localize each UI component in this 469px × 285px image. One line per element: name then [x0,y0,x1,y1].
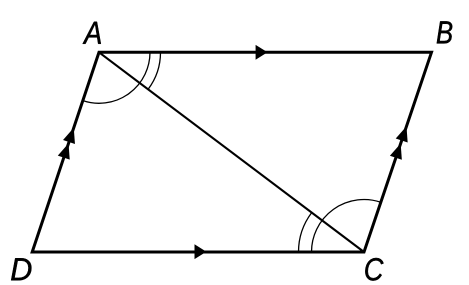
diagonal AC [99,52,364,252]
upper arrowhead on side BC [396,126,408,142]
vertex label D [11,258,31,280]
arrowhead on side DC [195,244,207,259]
upper arrowhead on side AD [63,128,75,144]
angle arc at C (inner, from CD to CB) [312,200,381,252]
lower arrowhead on side BC [390,144,402,160]
arrowhead on side AB [256,45,268,60]
angle arc at C (outer, from CD to CA) [298,213,311,252]
lower arrowhead on side AD [58,143,70,159]
angle arc at A (outer, from AC to AB) [148,52,160,89]
vertex label A [83,22,101,44]
parallelogram ABCD outline (sides AB, BC, CD, DA) [32,52,431,252]
vertex label C [365,258,383,281]
vertex label B [437,21,452,43]
angle arc at A (inner, from AD to AB) [83,52,150,103]
